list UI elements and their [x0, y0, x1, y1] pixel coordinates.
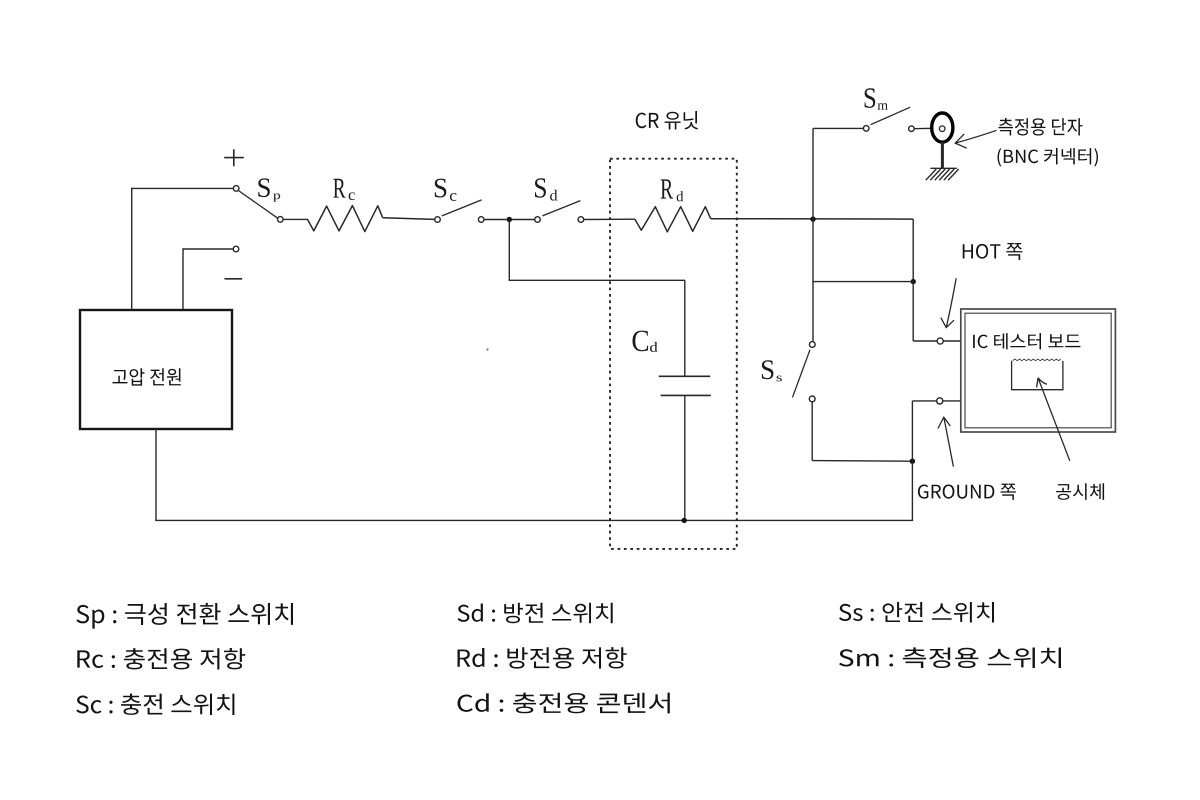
wire: node A down to Cd branch — [508, 220, 510, 281]
wire: HOT branch horizontal — [812, 281, 913, 283]
ground symbol hatching — [926, 168, 959, 180]
label Ss — [762, 360, 782, 381]
wire: minus terminal horizontal lead — [183, 248, 233, 250]
wire: Sc to node A — [484, 219, 535, 221]
label Sd — [535, 178, 557, 200]
wire: HOT rail corner down — [912, 219, 914, 282]
wire: plus lead vertical into supply — [131, 188, 133, 310]
wire: Ss bottom vertical — [811, 402, 813, 461]
wire: Rc to Sc — [383, 218, 435, 220]
annotation arrow to DUT — [1037, 378, 1070, 461]
legend Rc : 충전용 저항 — [77, 648, 245, 670]
label 공시체 — [1056, 483, 1104, 500]
legend Ss : 안전 스위치 — [839, 602, 994, 623]
switch Sm blade — [871, 107, 911, 125]
junction dot at Sm tap — [810, 216, 815, 221]
label Rd — [661, 179, 684, 201]
legend Sc : 충전 스위치 — [76, 694, 234, 716]
legend Cd : 충전용 콘덴서 — [458, 693, 670, 714]
switch Sd input circle — [535, 217, 541, 223]
junction dot HOT branch — [911, 279, 916, 284]
switch Sd blade — [542, 201, 580, 216]
legend Rd : 방전용 저항 — [458, 647, 627, 669]
wire: GROUND terminal horizontal — [912, 400, 936, 402]
label Sc — [435, 179, 457, 201]
label IC 테스터 보드 — [973, 333, 1080, 349]
legend Sm : 측정용 스위치 — [839, 647, 1061, 668]
switch Sd output circle — [578, 217, 584, 223]
label Sm — [865, 88, 888, 110]
wire: HOT terminal horizontal — [913, 340, 937, 342]
wire: vertical up to GROUND terminal level — [911, 401, 913, 461]
annotation arrow to GROUND terminal — [938, 417, 954, 466]
scan speck — [486, 348, 488, 350]
HOT terminal circle — [937, 338, 943, 344]
wire: Sm horizontal lead — [813, 127, 863, 129]
label Cd — [633, 331, 658, 352]
switch Ss top circle — [809, 342, 815, 348]
switch Ss bottom circle — [809, 396, 815, 402]
node A junction dot — [507, 217, 512, 222]
capacitor Cd top plate — [659, 375, 710, 377]
terminal circle at plus output — [233, 186, 239, 192]
label 고압 전원 (HV supply) — [113, 368, 181, 385]
label 측정용 단자 — [999, 118, 1083, 136]
switch Sp output circle — [278, 217, 284, 223]
BNC connector center pin circle — [939, 126, 945, 132]
switch Ss blade — [793, 350, 811, 398]
resistor Rd — [635, 207, 711, 232]
switch Sm input circle — [863, 126, 869, 132]
junction dot ground branch — [910, 459, 915, 464]
wire: minus lead vertical into supply — [182, 248, 184, 310]
label (BNC 커넥터) — [998, 148, 1099, 167]
switch Sc input circle — [435, 217, 441, 223]
GROUND terminal circle — [937, 398, 943, 404]
wire: vertical riser to Sm tap and Ss — [812, 128, 814, 341]
plus polarity mark — [224, 149, 244, 166]
BNC ground stem — [941, 142, 944, 168]
wire: bottom ground rail — [155, 519, 912, 521]
wire: plus terminal horizontal lead — [132, 187, 234, 189]
wire: Sm to BNC connector — [914, 127, 931, 129]
wire: node A horizontal to Cd top — [509, 279, 685, 281]
label CR 유닛 — [636, 111, 698, 130]
wire: Ss bottom horizontal to ground junction — [812, 460, 912, 463]
high-voltage power supply box — [80, 310, 232, 429]
minus polarity mark — [225, 278, 243, 280]
switch Sm output circle — [909, 126, 915, 132]
label Rc — [333, 179, 355, 200]
CR unit dashed enclosure — [610, 159, 737, 549]
wire: vertical down to HOT terminal level — [912, 282, 914, 341]
wire: supply bottom lead down — [155, 429, 157, 520]
resistor Rc — [308, 206, 383, 232]
IC tester board inner frame — [965, 313, 1111, 428]
annotation arrow to HOT terminal — [941, 278, 956, 327]
wire: Cd top vertical — [684, 280, 686, 376]
junction dot where Cd meets ground rail — [682, 518, 687, 523]
switch Sp blade — [239, 191, 278, 219]
legend Sd : 방전 스위치 — [458, 603, 613, 624]
label Sp — [258, 178, 280, 201]
wire: HOT terminal to tester board — [943, 340, 961, 342]
wire: Cd bottom vertical to ground rail — [684, 395, 686, 520]
wire: Sd into CR unit — [584, 218, 635, 220]
annotation arrow to BNC terminal — [955, 130, 996, 148]
wire: Sp to Rc — [283, 218, 308, 220]
BNC connector outer ring — [932, 113, 953, 142]
label HOT 쪽 — [963, 243, 1023, 260]
DUT socket box — [1012, 359, 1063, 390]
capacitor Cd bottom plate — [661, 394, 711, 396]
wire: GROUND terminal to tester board — [943, 400, 961, 402]
switch Sc output circle — [478, 217, 484, 223]
wire: Rd to HOT rail — [711, 218, 914, 220]
label GROUND 쪽 — [918, 484, 1016, 500]
legend Sp : 극성 전환 스위치 — [76, 603, 293, 629]
IC tester board outer frame — [961, 309, 1116, 432]
wire: ground junction down to bottom rail — [911, 461, 913, 521]
switch Sc blade — [442, 200, 482, 216]
terminal circle at minus output — [233, 246, 239, 252]
